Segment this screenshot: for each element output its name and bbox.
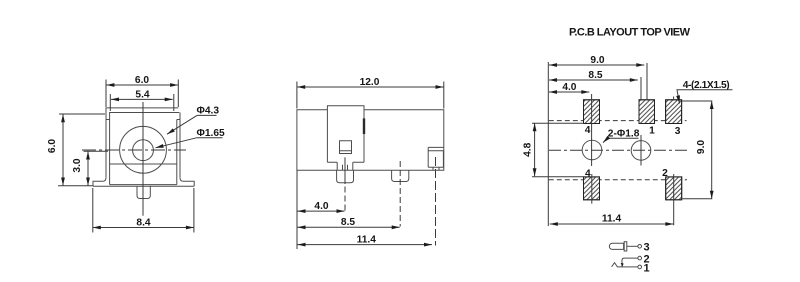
dim 9.0 right line [711, 101, 713, 199]
svg-text:4.0: 4.0 [314, 201, 328, 212]
svg-text:12.0: 12.0 [360, 77, 380, 88]
legend switch arrow [621, 263, 624, 267]
label 2-dia1.8 leader [603, 138, 639, 142]
svg-text:4: 4 [585, 125, 591, 136]
legend switch vertical [622, 258, 638, 267]
dim 4.0 pcb line [549, 91, 589, 93]
pcb hole left [582, 140, 602, 160]
front view big circle [120, 126, 167, 173]
front view bottom tab [137, 186, 150, 199]
svg-text:3: 3 [644, 242, 650, 254]
svg-text:11.4: 11.4 [357, 234, 377, 245]
dim 3.0 line [87, 152, 89, 186]
front view left foot [93, 178, 106, 186]
svg-text:9.0: 9.0 [590, 55, 604, 66]
front view vertical center line [142, 102, 144, 216]
svg-text:8.4: 8.4 [136, 217, 150, 228]
svg-text:1: 1 [649, 126, 655, 137]
front view body inner shell [110, 113, 180, 185]
pcb left reference line [547, 62, 549, 226]
dim 6.0 top line [106, 84, 178, 86]
svg-text:2: 2 [662, 168, 668, 179]
dim 11.4 line [298, 244, 433, 246]
front view horizontal center line [82, 149, 186, 151]
side view left extension line [296, 171, 298, 250]
pcb pad2 center line [673, 174, 675, 225]
svg-text:8.5: 8.5 [341, 217, 355, 228]
side view right bracket [428, 147, 444, 170]
legend terminal 3 circle [638, 245, 642, 249]
dim 5.4 line [111, 98, 173, 100]
legend plug flange [624, 242, 627, 251]
side view pin 1 [337, 170, 354, 183]
front view body outer shell [106, 108, 180, 178]
dim 8.4 line [93, 227, 194, 229]
side view block thick contact [363, 118, 365, 134]
pcb body outline dashed bottom [549, 179, 687, 181]
svg-text:Φ1.65: Φ1.65 [197, 128, 226, 139]
pcb body outline dashed top [549, 120, 687, 122]
svg-text:4: 4 [585, 168, 591, 179]
dim 6.0 top extension lines [106, 80, 178, 108]
dim 4.0 line [298, 210, 345, 212]
svg-text:6.0: 6.0 [47, 139, 58, 153]
side view inner square [340, 141, 352, 154]
side view tab gap walls [337, 162, 353, 170]
front view bottom line [93, 185, 194, 187]
svg-text:P.C.B LAYOUT TOP VIEW: P.C.B LAYOUT TOP VIEW [569, 27, 691, 39]
svg-text:Φ4.3: Φ4.3 [197, 106, 220, 117]
label dia 4.3 leader [167, 115, 217, 134]
pcb horizontal center line [549, 149, 690, 151]
legend terminal 1 circle [638, 265, 642, 269]
side view pin 1 center line dashed [344, 187, 346, 211]
side view barrel block [327, 106, 364, 163]
legend switch zigzag [612, 263, 622, 267]
dim 4.8 line [534, 123, 536, 176]
front view shell joint ticks [106, 119, 180, 121]
pcb hole right [631, 141, 651, 161]
dim 8.5 pcb line [549, 79, 638, 81]
dim 9.0 top line [549, 64, 644, 66]
svg-text:1: 1 [644, 263, 650, 275]
svg-text:8.5: 8.5 [588, 70, 602, 81]
side view pin 2 center line [399, 161, 401, 227]
dim 11.4 pcb line [550, 223, 674, 225]
legend terminal 2 circle [638, 256, 642, 260]
front view inner bottom line [110, 184, 177, 186]
pcb pad 4 upper [584, 100, 600, 124]
front view seam line [110, 163, 177, 165]
svg-text:4-(2.1X1.5): 4-(2.1X1.5) [683, 80, 730, 91]
svg-text:4.0: 4.0 [562, 82, 576, 93]
legend wire to 3 [627, 245, 638, 247]
front view right foot [180, 178, 194, 186]
svg-text:4.8: 4.8 [523, 142, 534, 156]
dim 5.4 extension lines [110, 94, 174, 111]
svg-text:3.0: 3.0 [72, 158, 83, 172]
pcb pad 4 lower [584, 177, 600, 200]
dim 3.0 extension line [84, 150, 109, 152]
dim 9.0 right extension lines [682, 101, 712, 199]
dim 4.8 extension lines [532, 123, 584, 177]
pcb pad 2 [666, 177, 682, 200]
pcb pad 3 [666, 100, 682, 124]
dim 12.0 line [297, 86, 443, 88]
pcb pad 1 [639, 100, 655, 124]
label dia 1.65 leader [156, 138, 223, 148]
front view small circle [133, 140, 154, 161]
svg-text:5.4: 5.4 [135, 89, 149, 100]
dim 6.0 left line [62, 114, 64, 185]
side view pin 1 center line [344, 157, 346, 184]
dim 8.4 extension lines [93, 188, 194, 233]
side view pin 2 [392, 170, 409, 181]
pcb hole left center line [591, 94, 593, 166]
pcb pad1 extension line [646, 63, 648, 100]
svg-text:3: 3 [675, 126, 681, 137]
pcb pad3 tick [673, 97, 675, 100]
legend wire to 1 [622, 266, 638, 268]
svg-text:11.4: 11.4 [602, 214, 622, 225]
legend plug barrel [609, 243, 623, 249]
side view right pin center line [435, 157, 437, 246]
dim 12.0 extension lines [297, 82, 444, 109]
svg-text:9.0: 9.0 [696, 140, 707, 154]
label 4-(2.1X1.5) leader [677, 90, 733, 104]
dim 6.0 left extension lines [58, 114, 105, 186]
svg-text:6.0: 6.0 [135, 75, 149, 86]
side view body outline [297, 110, 444, 171]
dim 8.5 line [298, 226, 400, 228]
pcb hole right center line [640, 77, 642, 166]
pcb pad4 lower center line [591, 174, 593, 204]
